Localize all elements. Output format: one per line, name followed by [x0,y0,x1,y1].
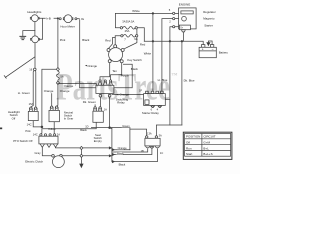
svg-text:Yellow: Yellow [48,127,56,131]
wire: orange bus wire [112,149,130,151]
wire: white vertical to starter relay [152,13,154,91]
svg-text:Pink: Pink [25,129,31,133]
wire: neutral switch yellow drop [53,122,55,134]
watermark PartsTree overlay [56,66,178,109]
wire: elbow to bottom relay TR [156,125,182,136]
node: bus top junction [109,127,111,129]
wire: stub to neutral switch bump1 [51,94,53,106]
battery [202,45,205,48]
wire: lamp2 down to connector 16 [34,43,36,68]
wire: hour meter pink drop [57,18,59,67]
wire: orange horizontal to switching relay [58,84,96,86]
wire: magneto line to starter relay [162,19,173,92]
svg-text:Pink: Pink [60,38,66,42]
starter relay box [146,91,149,93]
wire: headlight supply bracket [38,18,58,39]
node: bus junction white line [152,41,154,43]
wire: white top horizontal to engine terminal 5 [115,12,172,14]
svg-text:White: White [144,51,152,55]
wire: orange drop to neutral switch bump2 [57,85,58,106]
svg-text:Red: Red [140,43,146,47]
wire: hour meter black drop [79,20,81,88]
svg-text:B+L: B+L [203,146,209,150]
key switch S1 [109,48,123,62]
engine terminal magneto [173,18,175,20]
svg-text:ENGINE: ENGINE [179,3,191,7]
neutral switch [50,107,53,110]
wire: black bus wire to relay mid arch [112,149,152,155]
wire: relay 1C black wire [112,149,157,162]
PTO switch [40,134,42,136]
wire: relay 1B wire [112,149,148,152]
node: white line top junction [152,13,154,15]
table position/circuit [183,132,232,159]
wire: PTO gray to clutch [42,147,51,156]
svg-text:15A: 15A [29,102,34,106]
node: connector 16 [34,68,37,71]
orange feed arrow [116,94,119,96]
wire: dkgreen switch bump1 stub [94,105,96,107]
svg-text:Orange: Orange [44,89,54,93]
svg-text:Black: Black [117,152,124,156]
wire: switching relay BL to dkgreen switch [99,97,101,107]
svg-text:Off: Off [186,140,190,144]
wire: key switch TL red diagonal [108,38,115,49]
wire: diagonal lead top-left [4,57,35,78]
electric clutch [52,155,55,158]
wire: orange branch left to x42 [42,69,57,127]
wire: engine starter terminal elbow [170,27,173,125]
wire: dk blue vertical [181,41,183,125]
svg-text:Dk. Blue: Dk. Blue [184,79,195,83]
svg-text:1D: 1D [85,124,88,128]
svg-text:Gray: Gray [35,151,42,155]
svg-text:Empty: Empty [94,139,103,143]
regulator [181,11,193,14]
wire: PTO to bus wire upper [56,146,110,149]
svg-text:13A: 13A [147,132,152,136]
svg-text:POSITION: POSITION [186,135,200,139]
connector diamond on upper wire [80,146,83,149]
svg-text:Green: Green [122,124,130,128]
wire: battery bus [144,41,203,44]
arrow: orange bus wire start [112,149,114,151]
starter [179,25,190,30]
svg-text:Headlights: Headlights [27,10,42,14]
connector diamond upper (5A) [56,68,59,72]
wire: twin drop to headlight switch [31,71,34,107]
svg-text:CIRCUIT: CIRCUIT [203,135,215,139]
engine terminal 5 [173,12,175,14]
svg-text:I+B: I+B [46,16,51,20]
svg-text:Magneto: Magneto [203,16,215,20]
ground (headlights) [20,36,26,39]
node: 14C orange junction [41,126,43,128]
headlight switch [30,108,33,111]
svg-text:Red: Red [105,39,111,43]
svg-text:Start: Start [186,152,193,156]
fuse F2 6A [121,35,123,37]
wire: fuse link fuse1-right to fuse2-right [136,29,138,35]
svg-text:White: White [132,9,140,13]
hour meter U2 [59,18,61,20]
wire: key switch TR to 6A fuse vertical [124,37,137,49]
magneto [182,16,187,21]
left edge tick [0,128,2,130]
fuse 5A zigzag [57,71,60,81]
wire: long black horizontal from key switch [80,64,133,87]
arrow: black bus wire start [112,154,114,156]
arrow: lower black bus wire start [112,161,114,163]
svg-text:16: 16 [29,68,32,72]
wire: green loop to relay TL [130,128,147,150]
svg-text:G+M: G+M [203,140,210,144]
svg-text:3A: 3A [159,133,162,137]
svg-text:–: – [212,47,214,51]
svg-text:Hour Meter: Hour Meter [60,24,74,28]
wire: ground branch from headlight node [23,31,35,37]
wire: key switch BR to relay trap3 [111,63,122,80]
wire: switching relay BR down (bus upper) [109,97,111,128]
dk green switch [94,108,97,111]
wire: green seat wire [91,127,129,129]
svg-text:Off: Off [12,116,16,120]
wire: lamp1 to lamp2 [34,22,36,36]
svg-text:Electric Clutch: Electric Clutch [25,159,43,163]
wire: headlight switch bottom 14C [33,121,42,127]
svg-text:1C: 1C [160,151,163,155]
arrow: into bus upper [109,147,111,149]
engine terminal starter [173,26,175,28]
svg-text:PTO Switch Off: PTO Switch Off [13,139,32,143]
wire: starter relay right edge feed [165,98,170,100]
small white label backings [46,10,140,155]
svg-text:14C: 14C [33,133,38,137]
wire: dkgreen switch bottom to black ground wire [42,122,96,129]
svg-text:Black: Black [80,128,87,132]
wire: battery minus ground [208,41,212,45]
wire: key switch BL to relay trap1 [100,63,110,80]
wire: bus vertical [110,128,112,162]
wire: starter motor lead [182,32,184,41]
svg-text:+: + [202,48,204,52]
wire: diamond link [80,150,82,155]
headlight lamp 2 [31,38,33,40]
svg-text:Run: Run [186,146,192,150]
connector diamond on lower wire [80,154,83,157]
svg-text:™: ™ [172,73,178,79]
svg-text:Battery: Battery [219,50,229,54]
svg-text:3A30A 5A: 3A30A 5A [122,20,134,24]
svg-text:6A: 6A [134,37,137,41]
svg-text:Regulator: Regulator [203,10,216,14]
svg-text:Black: Black [119,162,126,166]
svg-text:25A: 25A [125,29,130,33]
svg-text:Orange: Orange [118,146,127,150]
node: bus junction starter lead [169,41,171,43]
connector diamond lower (5A) [56,81,59,85]
wire: fuse1 right elbow down to bus [137,28,144,42]
svg-text:Black: Black [82,38,90,42]
svg-text:Lt. Green: Lt. Green [18,91,30,95]
wire: fuse1 left elbow up to white line [115,13,120,27]
fuse F1 25A [120,27,122,29]
wire: key switch top to fuse2-left [115,36,121,45]
svg-text:2A: 2A [57,133,60,137]
switching relay block [98,82,102,86]
wire: orange down to PTO circle1 [41,129,42,134]
node: bus junction dk-blue [181,41,183,43]
svg-text:PartsTree: PartsTree [56,66,170,109]
wire: clutch to bus wire lower [62,155,109,157]
ground arrow below clutch wire [80,157,82,164]
svg-text:Starter: Starter [204,24,213,28]
starter trapezoid lead [182,30,186,32]
headlight lamp 1 [30,17,32,19]
svg-text:Key Switch: Key Switch [127,58,142,62]
interlock relay K1 [146,136,148,138]
svg-text:In Gear: In Gear [64,117,73,121]
arrow: into bus lower [109,155,111,157]
engine box [179,8,197,29]
svg-text:B+L+S: B+L+S [203,152,212,156]
svg-text:14C: 14C [27,122,32,126]
wire: orange feed to starter relay [112,94,144,96]
svg-text:1B: 1B [141,149,144,153]
